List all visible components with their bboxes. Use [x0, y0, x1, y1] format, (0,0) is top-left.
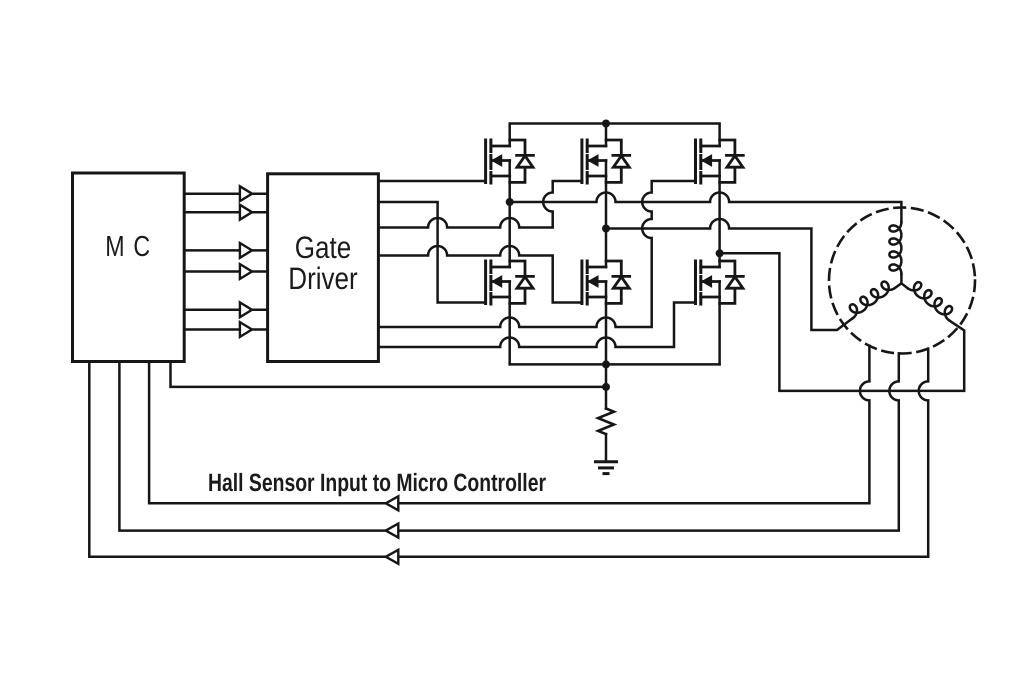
arrowhead right on MC-GD signal 2 — [240, 205, 252, 220]
wire Q3 source to phase C node — [718, 161, 721, 254]
wire phase A from node to motor top winding — [510, 193, 902, 222]
resistor R1 (current sense) — [598, 409, 614, 435]
transistor Q6 (N-MOSFET with body diode) — [696, 261, 744, 304]
node phase B — [602, 225, 610, 233]
node phase A — [506, 198, 514, 206]
wire phase C from node to motor lower-right winding — [720, 253, 965, 391]
arrowhead left on hall wire 1 — [386, 496, 399, 510]
wire MC to Gate Driver signal 4 — [184, 270, 267, 273]
svg-text:Driver: Driver — [288, 261, 357, 296]
wire Q6 drain from phase C node — [718, 253, 721, 267]
wire gate drive 6 to Q6 gate — [378, 303, 695, 348]
transistor Q4 (N-MOSFET with body diode) — [486, 261, 534, 304]
wire MC current-sense to resistor node — [171, 362, 607, 387]
wire bus to resistor R1 — [605, 364, 608, 408]
wire hall sensor 3 from motor to MC — [89, 349, 928, 557]
wire Q2 drain to rail — [605, 124, 608, 147]
node rail junction — [602, 120, 610, 128]
wire MC to Gate Driver signal 1 — [184, 192, 267, 195]
box Gate Driver — [268, 174, 379, 362]
wire MC to Gate Driver signal 2 — [184, 211, 267, 214]
wire Q5 source to bottom bus — [605, 282, 608, 365]
arrowhead right on MC-GD signal 6 — [240, 322, 252, 337]
wire Q1 source to phase A node — [508, 161, 511, 203]
wire winding B to wye center — [895, 283, 902, 288]
wire gate drive 4 to Q5 gate — [378, 246, 582, 303]
label MC — [105, 230, 546, 497]
wire bottom source bus — [510, 363, 720, 366]
transistor Q5 (N-MOSFET with body diode) — [582, 261, 630, 304]
transistor Q1 (N-MOSFET with body diode) — [486, 140, 534, 183]
wire gate drive 1 to Q1 gate — [378, 180, 485, 183]
arrowhead right on MC-GD signal 3 — [240, 243, 252, 258]
wire MC to Gate Driver signal 5 — [184, 309, 267, 312]
wire Q4 drain from phase A node — [508, 202, 511, 267]
transistor Q2 (N-MOSFET with body diode) — [582, 140, 630, 183]
wire gate drive 3 to Q2 gate (hops over Q4 feed and phase A column, crossover up at x552.7) — [378, 181, 582, 228]
wire Q5 drain from phase B node — [605, 229, 608, 268]
wire gate drive 5 to Q3 gate (up at x651.7 hopping phase A and B) — [378, 181, 695, 327]
wire winding A to wye center — [900, 274, 903, 283]
svg-text:M C: M C — [105, 231, 151, 263]
wire V+ top rail — [510, 124, 720, 147]
wire Q4 source to bottom bus — [508, 282, 511, 365]
node sense junction — [602, 383, 610, 391]
ground symbol — [596, 462, 617, 474]
wire hall sensor 2 from motor to MC — [119, 353, 898, 530]
box MC (microcontroller) — [73, 173, 185, 362]
wire MC to Gate Driver signal 3 — [184, 249, 267, 252]
wire Q2 source to phase B node — [605, 161, 608, 229]
svg-text:Hall Sensor Input to Micro Con: Hall Sensor Input to Micro Controller — [208, 469, 546, 497]
motor stator dashed circle — [829, 208, 975, 354]
node phase C — [716, 249, 724, 257]
wire gate drive 2 to Q4 gate — [378, 202, 485, 303]
wire hall sensor 1 from motor to MC (hops phase C return) — [149, 346, 869, 504]
arrowhead right on MC-GD signal 1 — [240, 186, 252, 201]
svg-text:Gate: Gate — [295, 230, 351, 265]
arrowhead right on MC-GD signal 5 — [240, 302, 252, 317]
wire phase B from node to motor lower-left winding — [606, 219, 853, 330]
wire winding C to wye center — [901, 283, 907, 288]
wire MC to Gate Driver signal 6 — [184, 328, 267, 331]
inductor winding phase B (lower left) — [846, 278, 895, 318]
arrowhead left on hall wire 3 — [386, 550, 399, 564]
inductor winding phase A (top) — [889, 222, 901, 274]
inductor winding phase C (lower right) — [908, 279, 956, 320]
wire resistor to ground — [605, 434, 608, 461]
arrowhead right on MC-GD signal 4 — [240, 264, 252, 279]
arrowhead left on hall wire 2 — [386, 524, 399, 538]
wire Q6 source to bottom bus — [718, 282, 721, 365]
transistor Q3 (N-MOSFET with body diode) — [696, 140, 744, 183]
node bus to resistor — [602, 360, 610, 368]
